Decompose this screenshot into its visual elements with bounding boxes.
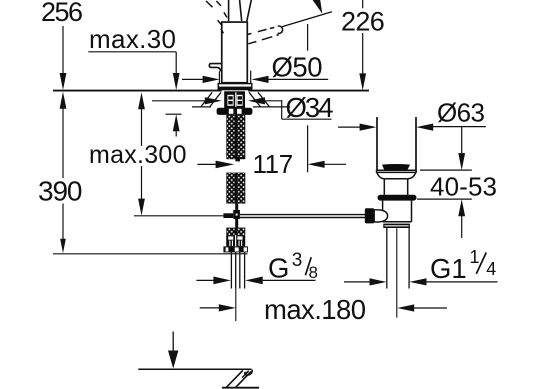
svg-text:Ø63: Ø63: [437, 97, 485, 127]
drain bottom lip: [383, 224, 410, 228]
braided hose upper section: [226, 115, 245, 162]
drain tailpipe: [386, 228, 388, 289]
dimension G1 1/4 arrows: [344, 278, 498, 285]
dimension G3/8 arrows: [196, 277, 315, 285]
faucet centre line: [235, 289, 237, 322]
svg-text:117: 117: [253, 149, 294, 179]
dim extension line left of body: [218, 72, 220, 85]
dimension Ø50: [182, 51, 328, 83]
drain plug seal (black): [382, 164, 410, 170]
dimension max.300: [89, 92, 187, 215]
drain side port: [374, 210, 387, 222]
mounting nut: [217, 108, 253, 115]
svg-text:8: 8: [309, 263, 318, 282]
rod knob (black): [365, 208, 374, 223]
pop-up horizontal rod: [240, 215, 365, 218]
drain neck: [384, 179, 407, 195]
svg-text:max.180: max.180: [264, 294, 366, 325]
drain pop-up waste upper body: [377, 117, 416, 170]
max.30 lower reference line: [166, 113, 182, 115]
dimension 390: [38, 92, 83, 253]
max.300 reference line: [134, 215, 224, 217]
counter section hatching left: [201, 92, 221, 107]
drain flange: [376, 170, 416, 179]
dimension 256: [41, 0, 83, 90]
G3/8 connection pipes: [230, 252, 232, 288]
handle phantom left (dashed): [206, 1, 227, 33]
dimension 40-53: [417, 127, 497, 238]
dim extension line right of body: [250, 71, 252, 84]
hose end knurled nuts: [226, 235, 245, 246]
svg-text:G: G: [268, 252, 289, 283]
arrow on diagonal (cropped dimension from above): [313, 0, 323, 14]
dimension max.30: [88, 24, 179, 136]
390 reference line: [53, 253, 248, 255]
pull rod stub: [235, 204, 238, 210]
svg-text:max.300: max.300: [89, 141, 187, 169]
handle axis diagonal line: [282, 12, 332, 27]
svg-text:226: 226: [341, 6, 385, 36]
braided hose short lower section: [226, 228, 245, 236]
label G3/8: [268, 250, 318, 283]
handle phantom right (dashed with end cap): [248, 26, 283, 44]
pull rod lower stub: [235, 219, 238, 228]
spout outlet: [209, 64, 221, 72]
drain centre line: [396, 228, 398, 317]
svg-text:256: 256: [41, 0, 83, 27]
svg-text:40-53: 40-53: [430, 171, 497, 201]
faucet body: [222, 22, 248, 83]
drain O-ring (black): [378, 195, 417, 201]
dimension Ø63: [338, 97, 486, 130]
faucet handle neck: [229, 0, 252, 21]
dimension max.180: [200, 294, 447, 325]
faucet base plate: [218, 84, 252, 90]
svg-text:390: 390: [38, 176, 83, 207]
dimension Ø34: [152, 92, 334, 123]
braided hose middle section: [226, 173, 245, 204]
pop-up rod T junction: [233, 210, 240, 219]
dimension 226: [341, 0, 385, 90]
mounting surface symbol: [138, 332, 259, 388]
countertop line: [53, 90, 369, 92]
dimension 117: [197, 24, 346, 179]
svg-text:max.30: max.30: [89, 24, 176, 54]
svg-text:Ø50: Ø50: [272, 51, 323, 82]
svg-text:Ø34: Ø34: [286, 92, 334, 123]
drain lower body: [383, 201, 412, 222]
hose connection nuts G3/8: [223, 246, 248, 252]
svg-text:G1: G1: [430, 253, 467, 284]
label G1 1/4: [430, 247, 496, 284]
svg-text:3: 3: [292, 250, 303, 271]
svg-text:1: 1: [470, 247, 480, 267]
threaded shank below counter: [224, 91, 245, 108]
washer top reference lines: [192, 106, 211, 108]
svg-text:4: 4: [486, 259, 496, 279]
counter section hatching right: [249, 92, 270, 107]
